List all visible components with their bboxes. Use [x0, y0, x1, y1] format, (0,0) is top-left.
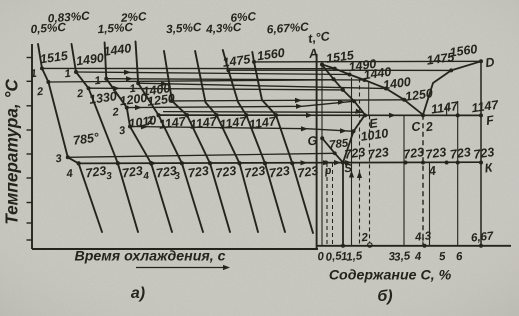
- carry line 1010: [130, 124, 354, 133]
- svg-text:723: 723: [268, 164, 291, 181]
- axis label 1,5: [346, 250, 364, 264]
- vertical S 0.8 solid: [341, 161, 345, 248]
- label 1147 row #2: [189, 114, 219, 132]
- carry line 1475: [228, 69, 451, 71]
- label 2 next to C: [424, 119, 434, 134]
- label 723 row #8: [297, 164, 320, 181]
- x-axis title Время охлаждения с: [75, 249, 226, 265]
- svg-text:2: 2: [35, 86, 44, 99]
- axis label 2: [360, 232, 369, 245]
- label 1147 right-2: [471, 98, 501, 116]
- label 1250 left: [146, 91, 176, 109]
- carry line 1440: [106, 76, 364, 81]
- axis label 6: [455, 251, 463, 264]
- label 723 row #1: [85, 164, 108, 181]
- label 1200 left: [119, 91, 149, 109]
- label 785 right: [329, 137, 350, 151]
- label S: [344, 163, 353, 176]
- label t°C axis title: [307, 29, 331, 46]
- label 723 row #4: [187, 164, 210, 181]
- point G and line GS: [307, 133, 343, 162]
- right x-axis: [317, 245, 511, 247]
- svg-text:723: 723: [367, 145, 390, 162]
- curve3 tick 1: [94, 75, 102, 88]
- curve1 tick 1: [30, 68, 38, 81]
- label 1440 left: [103, 41, 133, 59]
- label 723 row #5: [215, 164, 238, 181]
- label 723 right #2: [367, 145, 390, 162]
- caption б): [377, 288, 392, 305]
- svg-text:2: 2: [145, 115, 154, 128]
- label 4,3%C: [205, 20, 243, 37]
- label 1147 right-1: [430, 99, 460, 117]
- cooling curve 2 (0.83%C): [72, 44, 139, 232]
- cooling curve 1 (0.5%C): [38, 44, 102, 232]
- label 1147 row #4: [248, 114, 278, 132]
- label 1400 right: [382, 75, 412, 93]
- label 1330 left: [88, 89, 118, 107]
- svg-text:6,67: 6,67: [470, 230, 494, 244]
- curve1 tick 2: [35, 86, 44, 99]
- label 1560 right: [449, 42, 479, 60]
- point A: [307, 46, 324, 67]
- label 6,67%C: [266, 20, 309, 37]
- vertical 2.14 dashed: [368, 82, 372, 248]
- label 2%C: [119, 9, 147, 25]
- axis label 4,3: [414, 230, 433, 244]
- right boundary vertical DFK: [479, 61, 483, 248]
- line ES: [343, 115, 365, 163]
- label 1490 left: [75, 51, 105, 69]
- label 0,5%C: [30, 20, 67, 36]
- curve4 tick 1: [129, 83, 137, 96]
- cooling curve 5 (3.5%C): [164, 51, 230, 232]
- label 3,5%C: [166, 20, 203, 36]
- label 1490 right: [348, 57, 378, 75]
- label 785 left: [72, 130, 101, 148]
- svg-text:723: 723: [244, 164, 267, 181]
- svg-text:723: 723: [187, 164, 210, 181]
- y-axis title Температура °С: [2, 79, 22, 225]
- svg-text:723: 723: [402, 145, 425, 162]
- label 1475 left: [222, 52, 253, 70]
- vertical 4.75 short: [446, 105, 448, 116]
- svg-text:4: 4: [65, 168, 74, 181]
- label 1440 right: [363, 65, 393, 83]
- vertical 6 solid: [457, 101, 459, 246]
- svg-text:б): б): [377, 288, 392, 305]
- carry line solidus c1: [48, 80, 333, 82]
- label 1147 row #3: [219, 114, 249, 132]
- carry line 1560 top: [254, 60, 481, 63]
- carry line 1400: [138, 81, 386, 88]
- label 723 right #5: [449, 145, 472, 162]
- label 1515 right: [325, 48, 356, 66]
- svg-text:3,5%С: 3,5%С: [166, 20, 203, 36]
- svg-text:D: D: [484, 55, 495, 70]
- curve2 tick 3: [106, 171, 113, 183]
- label 1,5%C: [97, 20, 134, 36]
- label 6%C: [230, 9, 257, 25]
- label 1010 right: [360, 126, 390, 144]
- label 0,83%C: [47, 9, 90, 26]
- right y-axis: [316, 54, 318, 249]
- curve4 tick 3: [174, 171, 181, 183]
- curve2 tick 2: [75, 88, 84, 101]
- svg-text:А: А: [307, 46, 319, 61]
- label 1515 left: [39, 49, 70, 67]
- axis label 0: [317, 251, 325, 264]
- vertical 0.02 solid: [321, 64, 323, 246]
- svg-text:3,5: 3,5: [394, 250, 412, 264]
- svg-text:723: 723: [473, 145, 496, 162]
- curve1 tick 3: [55, 153, 63, 166]
- label 723 right #4: [425, 145, 448, 162]
- svg-text:723: 723: [215, 164, 238, 181]
- cooling curve 4 (2%C): [136, 42, 204, 233]
- label 723 right #6: [473, 145, 496, 162]
- label F: [485, 113, 495, 128]
- axis label 3,5: [394, 250, 412, 264]
- label 723 right #3: [402, 145, 425, 162]
- curve3 tick 4: [142, 171, 150, 183]
- cooling curve 6 (4.3%C): [195, 51, 258, 232]
- label 723 right #1: [344, 145, 367, 162]
- curve2 tick 1: [64, 68, 72, 81]
- cooling curve 7 (6%C): [223, 50, 285, 232]
- cooling curve 8 (6.67%C): [252, 52, 313, 233]
- svg-text:723: 723: [425, 145, 448, 162]
- carry line 1515: [42, 67, 335, 69]
- carry line 1147 / line ECF: [157, 113, 484, 118]
- curve3 tick 3: [118, 125, 126, 138]
- vertical 4.3 dashed: [423, 115, 427, 248]
- left chart x-axis: [32, 248, 318, 250]
- solidus AE: [322, 64, 366, 115]
- carry line 1330: [89, 86, 343, 91]
- label 723 row #6: [244, 164, 267, 181]
- point D: [479, 55, 495, 70]
- svg-text:4,3: 4,3: [414, 230, 433, 244]
- cooling curve 3 (1.5%C): [104, 43, 172, 233]
- svg-text:0,83%С: 0,83%С: [47, 9, 90, 26]
- label P: [323, 165, 332, 178]
- axis label 6,67: [470, 230, 494, 244]
- label 1147 row #1: [158, 114, 188, 132]
- label 1560 left: [256, 46, 286, 64]
- vertical 4 solid: [429, 163, 431, 246]
- svg-text:6%С: 6%С: [230, 9, 257, 25]
- svg-text:723: 723: [85, 164, 108, 181]
- label E: [368, 116, 379, 131]
- svg-text:2: 2: [75, 88, 84, 101]
- curve3 tick 2: [111, 106, 120, 119]
- svg-text:723: 723: [344, 145, 367, 162]
- carry line 1490: [76, 70, 350, 75]
- svg-text:723: 723: [155, 164, 178, 181]
- curve1 tick 4: [65, 168, 74, 181]
- label 1010 left: [128, 113, 158, 131]
- label K: [484, 160, 495, 175]
- carry line 723 / line PSK: [77, 160, 483, 166]
- svg-text:1,5: 1,5: [346, 250, 364, 264]
- label 1250 right: [404, 86, 434, 104]
- vertical 3.5 solid: [403, 115, 405, 245]
- svg-text:723: 723: [449, 145, 472, 162]
- svg-text:723: 723: [121, 164, 144, 181]
- liquidus ACD: [322, 61, 482, 115]
- x-axis title underline arrow: [136, 265, 230, 270]
- label 1400 left: [142, 81, 172, 99]
- carry line 785: [68, 151, 337, 157]
- carry line 1250: [172, 98, 404, 103]
- axis label 1: [340, 251, 348, 264]
- svg-text:а): а): [131, 285, 145, 302]
- svg-text:6,67%С: 6,67%С: [266, 20, 309, 37]
- axis label 3: [388, 251, 396, 264]
- label 723 row #3: [155, 164, 178, 181]
- x-axis title Содержание С %: [329, 268, 452, 284]
- vertical 1.5 dashed: [357, 79, 362, 246]
- vertical 1.0 solid: [349, 78, 354, 246]
- curve4 tick 2: [145, 115, 154, 128]
- vertical 0.25 dashed: [327, 163, 333, 246]
- svg-text:2%С: 2%С: [119, 9, 147, 25]
- axis label 5: [438, 251, 446, 264]
- svg-text:2: 2: [111, 106, 120, 119]
- svg-text:Температура, °С: Температура, °С: [2, 79, 22, 225]
- svg-text:Содержание С, %: Содержание С, %: [329, 268, 452, 284]
- left y-axis ticks: [27, 58, 33, 241]
- carry line mid 112: [163, 109, 363, 115]
- label 4 below PSK: [427, 164, 437, 179]
- caption а): [131, 285, 145, 302]
- svg-text:Время охлаждения, с: Время охлаждения, с: [75, 249, 226, 265]
- axis label 0,5: [325, 250, 343, 264]
- label 1475 right: [426, 50, 457, 68]
- axis label 4: [413, 251, 422, 264]
- label C: [410, 119, 422, 134]
- carry line 1200: [127, 100, 354, 111]
- label 723 row #2: [121, 164, 144, 181]
- left chart y-axis: [31, 44, 33, 249]
- label 723 row #7: [268, 164, 291, 181]
